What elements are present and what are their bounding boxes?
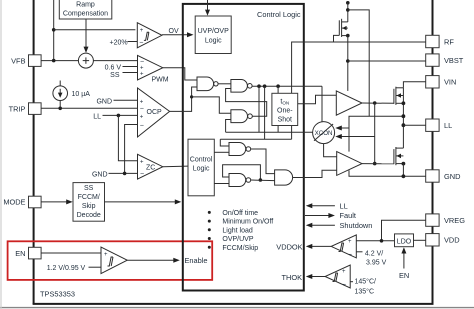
svg-text:−: − xyxy=(140,171,144,178)
nand N1 xyxy=(197,77,218,91)
wire VFB to summing xyxy=(41,60,78,62)
wire xcon to low driver xyxy=(324,144,337,157)
wire N4 B stub xyxy=(214,151,229,153)
svg-text:10 µA: 10 µA xyxy=(72,91,91,98)
wire 20% stub xyxy=(128,41,138,43)
wire gate high xyxy=(362,102,394,104)
wire branch to N3 xyxy=(192,97,231,113)
wire drain branch xyxy=(348,10,369,116)
pin EN xyxy=(15,247,41,259)
ramp compensation box xyxy=(59,0,112,19)
node VFB vertical feed xyxy=(53,0,55,61)
junction OCP branch xyxy=(190,95,193,98)
svg-text:Skip: Skip xyxy=(82,203,96,210)
svg-text:LL: LL xyxy=(444,121,452,130)
wire bst source down xyxy=(347,36,349,91)
wire arrow into UVP from top xyxy=(205,0,210,16)
wire drop 2 xyxy=(264,86,266,139)
svg-text:FCCM/Skip: FCCM/Skip xyxy=(222,245,258,252)
svg-text:SS: SS xyxy=(110,72,120,79)
red highlight box xyxy=(8,241,213,280)
svg-text:Control Logic: Control Logic xyxy=(257,10,301,19)
wire fet high drain to VIN xyxy=(403,82,425,88)
wire decode output arrow xyxy=(105,199,182,204)
svg-text:+: + xyxy=(140,72,144,78)
box tON one-shot xyxy=(272,93,298,125)
control logic outer box xyxy=(183,4,304,291)
junction N5 out xyxy=(259,178,263,182)
wire gate node down xyxy=(374,103,376,164)
wire 4.2 stub xyxy=(356,251,362,253)
wire N4 out to and xyxy=(251,149,275,174)
junction VFB xyxy=(52,59,56,63)
wire ll return xyxy=(349,116,403,128)
summing junction xyxy=(78,53,93,68)
junction TRIP xyxy=(58,107,62,111)
wire cross link xyxy=(220,138,291,140)
bullet list xyxy=(208,210,258,217)
wire rf riser xyxy=(292,42,426,139)
wire fet high source down xyxy=(402,88,404,148)
junction bus 2 xyxy=(263,84,267,88)
wire 0.6V stub xyxy=(123,66,138,68)
driver high-side xyxy=(336,91,362,115)
wire LDO to VDD xyxy=(414,239,426,241)
svg-text:−: − xyxy=(139,40,143,47)
junction GND ZC xyxy=(123,172,127,176)
comparator PWM xyxy=(138,55,169,83)
wire bus to xcon top xyxy=(321,86,323,121)
wire GND to ZC xyxy=(109,172,138,174)
svg-text:EN: EN xyxy=(15,249,25,258)
svg-text:GND: GND xyxy=(96,98,112,105)
svg-text:145°C/: 145°C/ xyxy=(355,278,377,286)
wire SS stub xyxy=(123,72,138,74)
svg-text:VDD: VDD xyxy=(444,236,460,245)
svg-text:+: + xyxy=(140,99,144,105)
label 4.2V xyxy=(365,251,387,267)
transistor bst switch xyxy=(334,19,348,43)
comparator OCP xyxy=(138,88,170,137)
IC left border xyxy=(33,0,35,304)
wire and output to low driver xyxy=(293,170,337,177)
svg-text:tON: tON xyxy=(280,99,289,106)
wire TRIP to OCP xyxy=(41,107,137,109)
svg-text:OV: OV xyxy=(169,28,179,35)
svg-text:+: + xyxy=(348,239,352,245)
svg-text:Logic: Logic xyxy=(205,38,222,45)
svg-text:MODE: MODE xyxy=(3,198,25,207)
svg-text:−: − xyxy=(342,282,346,289)
box LDO xyxy=(395,234,414,247)
wire N5 B stub xyxy=(214,183,229,185)
svg-text:VBST: VBST xyxy=(444,56,464,65)
wire xcon arrow 2 xyxy=(335,134,374,139)
terminal top node xyxy=(346,1,350,5)
svg-text:Shot: Shot xyxy=(278,116,292,123)
comparator OV xyxy=(137,23,162,48)
svg-text:On/Off time: On/Off time xyxy=(222,210,258,217)
transistor high-side fet xyxy=(394,87,404,105)
and gate A1 xyxy=(275,170,293,185)
wire OCP 4th input xyxy=(125,125,138,174)
wire N3 feedback to N2 xyxy=(226,89,267,117)
junction bst drain xyxy=(346,8,350,12)
svg-text:Light load: Light load xyxy=(222,227,252,234)
svg-text:GND: GND xyxy=(444,172,460,181)
wire N5 A loop xyxy=(223,165,261,180)
current source 10uA xyxy=(53,81,68,109)
wire 145 stub xyxy=(350,281,353,283)
svg-text:+: + xyxy=(140,28,144,34)
svg-text:OCP: OCP xyxy=(147,109,163,116)
pin VBST xyxy=(426,54,464,66)
wire EN arrow into LDO xyxy=(401,247,406,268)
svg-text:135°C: 135°C xyxy=(355,287,375,295)
wire Fault arrow xyxy=(305,211,356,220)
junction gnd xyxy=(402,174,406,178)
junction top feed xyxy=(52,28,56,32)
nand N3 xyxy=(231,110,252,123)
label 0.6V SS xyxy=(105,65,122,79)
svg-text:Compensation: Compensation xyxy=(63,11,108,18)
driver low-side xyxy=(337,152,362,176)
page rule left xyxy=(0,0,2,309)
svg-text:+20%: +20% xyxy=(110,40,128,47)
svg-text:+: + xyxy=(104,252,108,258)
svg-text:1.2 V/0.95 V: 1.2 V/0.95 V xyxy=(47,265,86,272)
junction bus 1 xyxy=(257,84,261,88)
comparator EN xyxy=(101,247,127,274)
svg-text:Shutdown: Shutdown xyxy=(340,221,373,230)
junction gate high xyxy=(373,101,377,105)
page rule bottom xyxy=(0,307,474,309)
nand N5 xyxy=(229,174,251,187)
svg-text:GND: GND xyxy=(92,171,108,178)
svg-text:RF: RF xyxy=(444,37,454,46)
wire LL stub xyxy=(103,114,138,116)
wire VDDOK arrow xyxy=(306,244,331,249)
comparator ZC xyxy=(138,154,163,179)
junction vbst xyxy=(346,59,350,63)
wire xcon arrow 1 xyxy=(335,126,349,131)
svg-text:LDO: LDO xyxy=(397,238,412,245)
pin VFB xyxy=(11,55,41,67)
wire N1 to N2 xyxy=(218,83,231,85)
nand N4 xyxy=(229,143,251,156)
wire drop tOn xyxy=(277,86,279,132)
svg-text:−: − xyxy=(348,251,352,258)
wire top to bst fet xyxy=(347,3,349,22)
svg-text:ZC: ZC xyxy=(146,165,155,172)
junction ll pin xyxy=(402,123,406,127)
wire PWM output xyxy=(163,68,197,80)
wire EN to comparator xyxy=(41,252,101,254)
wire to OV comparator xyxy=(54,29,136,31)
junction LDO node xyxy=(380,239,384,243)
svg-text:+: + xyxy=(342,269,346,275)
svg-text:VIN: VIN xyxy=(444,78,456,87)
svg-text:0.6 V: 0.6 V xyxy=(105,65,122,72)
svg-text:Minimum On/Off: Minimum On/Off xyxy=(222,219,273,226)
wire ZC output xyxy=(163,165,188,168)
wire comparator to LDO xyxy=(356,240,394,242)
svg-text:LL: LL xyxy=(93,113,101,120)
pin VIN xyxy=(426,76,457,88)
svg-text:+: + xyxy=(140,114,144,120)
wire to LL pin xyxy=(403,124,425,126)
wire drop 1 xyxy=(258,86,260,132)
svg-text:UVP/OVP: UVP/OVP xyxy=(198,28,229,35)
junction bst source xyxy=(346,34,350,38)
svg-text:SS: SS xyxy=(84,185,94,192)
wire LL down to ZC xyxy=(118,115,137,160)
svg-text:OVP/UVP: OVP/UVP xyxy=(222,236,253,243)
svg-text:THOK: THOK xyxy=(282,273,303,282)
junction gate low xyxy=(373,162,377,166)
pin MODE xyxy=(3,196,41,208)
wire THOK arrow xyxy=(306,274,325,279)
svg-text:Fault: Fault xyxy=(340,211,356,220)
svg-text:+: + xyxy=(140,160,144,166)
pin TRIP xyxy=(9,103,41,115)
box control logic inner xyxy=(188,139,214,196)
wire N4A feed xyxy=(220,139,229,146)
wire ramp to summing arrow xyxy=(84,19,89,53)
wire LL arrow xyxy=(306,201,348,210)
svg-text:VREG: VREG xyxy=(444,216,465,225)
pin RF xyxy=(426,35,455,47)
svg-text:TPS53353: TPS53353 xyxy=(40,290,75,299)
svg-text:−: − xyxy=(140,106,144,113)
svg-text:Logic: Logic xyxy=(193,165,210,172)
circle XCON xyxy=(313,122,335,144)
label 145C xyxy=(355,278,377,296)
svg-text:PWM: PWM xyxy=(152,76,169,83)
IC bottom border xyxy=(33,303,434,305)
svg-text:−: − xyxy=(140,122,144,129)
wire OCP out to N1 xyxy=(170,87,197,111)
junction low gate-source xyxy=(402,162,406,166)
pin VDD xyxy=(426,234,460,246)
junction bus 3 xyxy=(276,84,280,88)
wire gate low xyxy=(362,163,394,165)
wire gnd rail xyxy=(349,170,426,176)
svg-text:Ramp: Ramp xyxy=(76,2,95,9)
svg-text:TRIP: TRIP xyxy=(9,104,26,113)
comparator THOK thermal xyxy=(325,265,350,289)
IC right border xyxy=(432,0,434,304)
svg-text:EN: EN xyxy=(399,271,409,280)
pin GND xyxy=(426,170,461,182)
svg-text:−: − xyxy=(140,59,144,66)
wire to VBST pin xyxy=(348,60,426,62)
svg-text:VDDOK: VDDOK xyxy=(276,243,302,252)
transistor low-side fet xyxy=(394,147,404,165)
svg-text:One-: One- xyxy=(277,107,293,114)
wire OV to UVP arrow xyxy=(162,32,194,37)
junction ll return xyxy=(402,114,406,118)
pin VREG xyxy=(426,214,465,226)
svg-text:Control: Control xyxy=(190,156,213,163)
wire VREG to LDO node xyxy=(382,220,426,241)
wire driver low supply xyxy=(348,128,350,152)
svg-text:LL: LL xyxy=(340,201,348,210)
comparator VDD UVLO xyxy=(331,235,356,259)
pin LL xyxy=(426,119,453,131)
wire Shutdown arrow xyxy=(306,221,373,230)
svg-text:3.95 V: 3.95 V xyxy=(366,260,387,267)
svg-text:Decode: Decode xyxy=(77,212,101,219)
box UVP/OVP logic xyxy=(195,16,231,54)
svg-text:FCCM/: FCCM/ xyxy=(78,194,100,201)
junction LL stub xyxy=(117,114,121,118)
wire bus logic to xcon xyxy=(226,131,313,133)
svg-text:4.2 V/: 4.2 V/ xyxy=(365,251,383,258)
svg-text:Enable: Enable xyxy=(185,256,208,265)
wire N2 output bus xyxy=(252,85,322,87)
wire N5 out to and xyxy=(251,179,275,182)
wire MODE arrow xyxy=(41,199,73,204)
svg-text:XCON: XCON xyxy=(315,130,333,137)
wire summing to PWM xyxy=(93,60,137,62)
box SS FCCM decode xyxy=(73,183,105,222)
wire 1.2V stub xyxy=(89,266,102,268)
wire tON output to driver xyxy=(298,95,337,104)
wire fet low source to gnd xyxy=(402,164,404,177)
junction source 1 xyxy=(402,101,406,105)
wire Enable arrow xyxy=(127,258,180,263)
svg-text:VFB: VFB xyxy=(11,56,25,65)
wire N3 B input xyxy=(226,120,231,133)
nand N2 xyxy=(231,80,252,93)
wire GND stub OCP xyxy=(114,99,138,101)
